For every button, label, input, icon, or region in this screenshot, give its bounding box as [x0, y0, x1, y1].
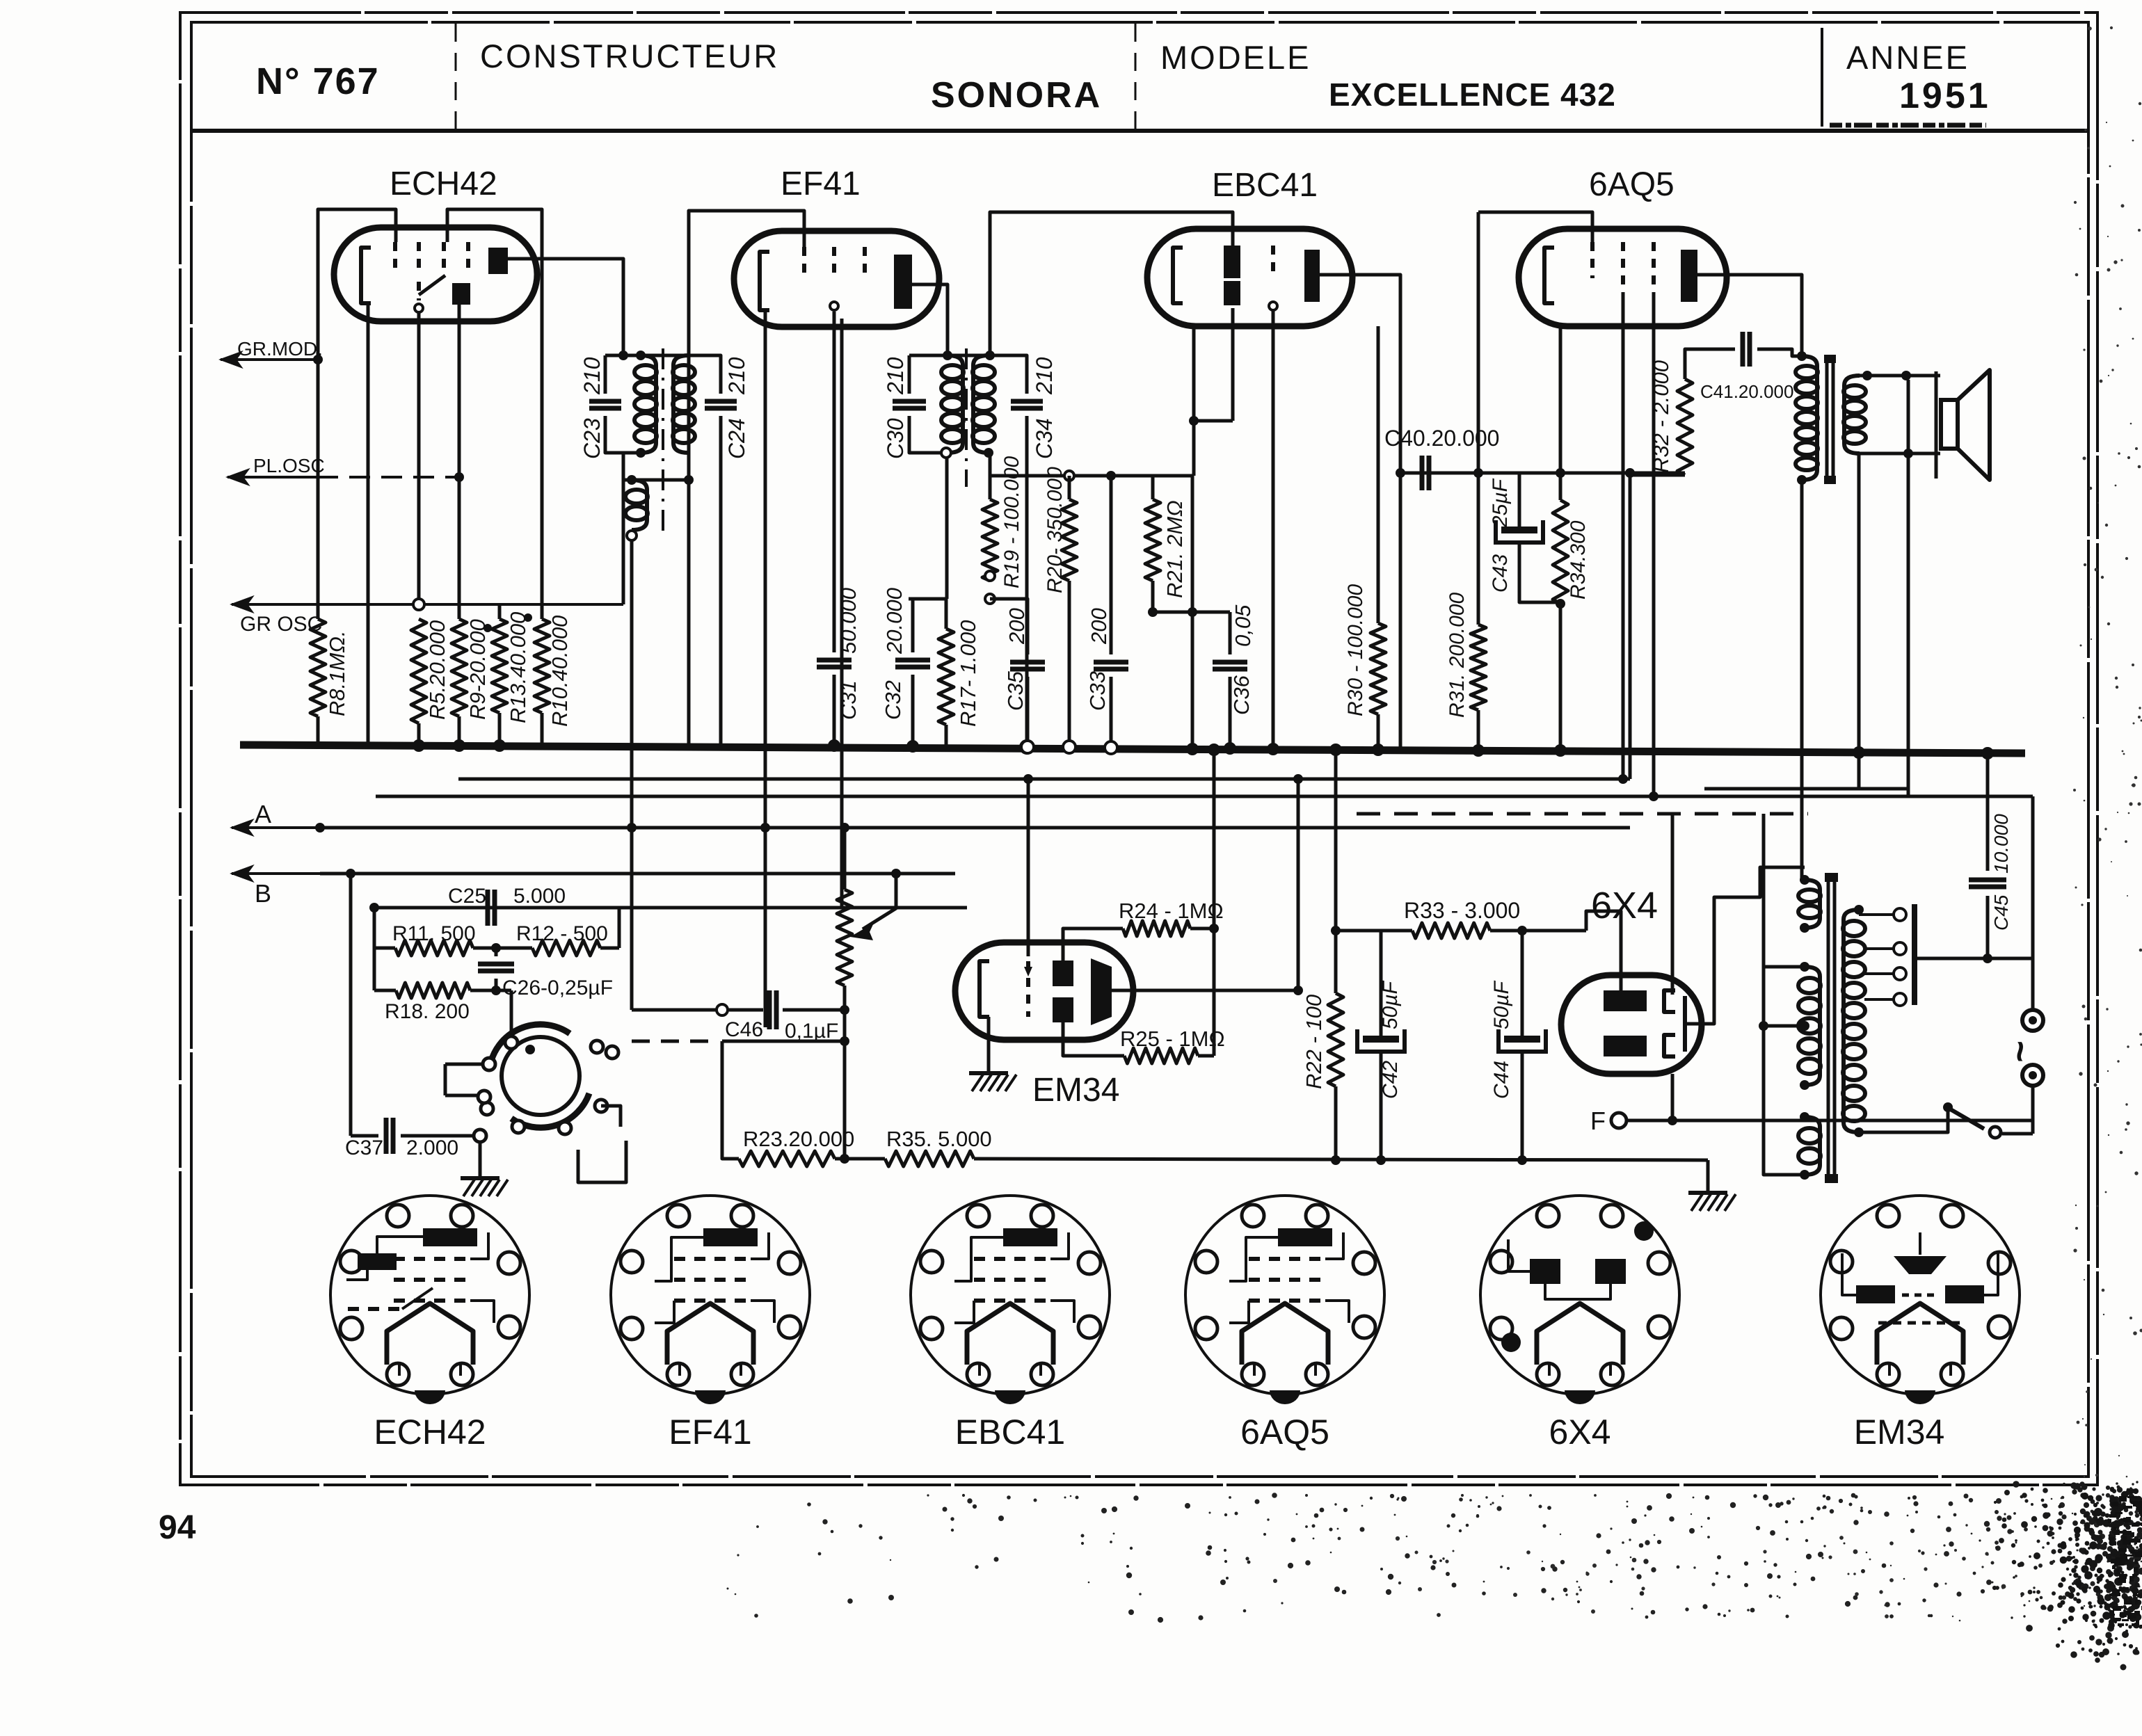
svg-text:210: 210: [724, 357, 749, 395]
capacitor C35 200: [990, 599, 1028, 654]
svg-text:R32 - 2.000: R32 - 2.000: [1649, 360, 1673, 473]
EM34 grid feed: [1027, 779, 1030, 956]
6X4 plates: [1604, 990, 1647, 1011]
svg-text:EBC41: EBC41: [1212, 167, 1318, 204]
T2 core: [965, 348, 968, 487]
resistor R5 20.000: [413, 599, 424, 610]
svg-text:R5.20.000: R5.20.000: [425, 620, 449, 720]
resistor R22 100: [1334, 750, 1338, 993]
terminal PL.OSC arrow: [227, 476, 317, 479]
gang frame wires: [578, 1141, 626, 1182]
resistor R25 1M: [1063, 1022, 1124, 1056]
6X4 plate feeds: [1586, 911, 1621, 990]
socket diagram 6X4: [1480, 1196, 1679, 1395]
IF transformer T1 top wire: [605, 354, 685, 357]
svg-text:6X4: 6X4: [1549, 1413, 1611, 1452]
svg-text:R12 - 500: R12 - 500: [516, 922, 608, 945]
svg-text:50.000: 50.000: [836, 588, 861, 654]
speaker wires: [1860, 374, 1940, 378]
EBC41 plate: [1304, 250, 1320, 302]
svg-text:C24: C24: [724, 418, 749, 459]
socket diagram EM34: [1821, 1196, 2020, 1395]
terminal GR OSC arrow / oscillator grid line: [232, 603, 623, 606]
right feed verticals: [1213, 750, 1216, 1056]
EM34 anodes: [1053, 961, 1073, 986]
output transformer core: [1825, 355, 1829, 484]
svg-text:F: F: [1590, 1107, 1606, 1135]
svg-text:R17- 1.000: R17- 1.000: [956, 620, 980, 727]
svg-text:2.000: 2.000: [406, 1136, 458, 1159]
socket diagram EF41: [611, 1196, 810, 1395]
svg-text:EF41: EF41: [781, 166, 861, 202]
EF41 pin wires: [764, 310, 767, 1027]
6AQ5 screen/grid pin wires: [1622, 292, 1625, 779]
svg-text:R9-20.000: R9-20.000: [465, 619, 490, 720]
6X4 cathode output: [1685, 867, 1805, 1024]
resistor R10 40.000: [534, 619, 550, 713]
smudge under 1951: [1830, 123, 1986, 128]
ECH42 cathode: [361, 248, 371, 303]
tap selector bar: [1912, 904, 1917, 1005]
capacitor C36 0,05: [1229, 612, 1232, 654]
capacitor C41 20.000: [1685, 349, 1735, 379]
ECH42 osc grid: [417, 282, 421, 300]
svg-text:SONORA: SONORA: [931, 75, 1102, 115]
svg-text:R11. 500: R11. 500: [392, 922, 476, 945]
AVC dashed line: [632, 1040, 716, 1043]
IF transformer T2 top wire: [909, 354, 990, 357]
svg-text:C23: C23: [580, 418, 605, 459]
svg-text:R31. 200.000: R31. 200.000: [1446, 593, 1469, 718]
svg-text:200: 200: [1087, 608, 1111, 645]
resistor R9 20.000: [451, 619, 467, 716]
T2 primary coil: [948, 355, 963, 453]
ECH42 hexode plate: [488, 248, 508, 274]
capacitor C37 2.000: [349, 874, 353, 1136]
heater line L1: [458, 778, 1630, 781]
EM34 target: [1091, 958, 1112, 1025]
svg-text:EF41: EF41: [669, 1413, 752, 1452]
right chassis ground: [1707, 1160, 1710, 1191]
tuning gang: [502, 1037, 580, 1115]
capacitor C43 25uF: [1518, 473, 1521, 515]
EF41 top hat: [689, 211, 804, 745]
T2 secondary coil: [973, 355, 989, 453]
svg-text:94: 94: [159, 1509, 196, 1546]
line B: [320, 872, 955, 876]
svg-text:~: ~: [1999, 1040, 2041, 1063]
capacitor C31 50.000: [833, 641, 836, 652]
6AQ5 cathode: [1544, 248, 1554, 303]
capacitor C25 5.000: [374, 908, 967, 948]
svg-text:C25: C25: [448, 885, 486, 908]
output transformer primary: [1802, 356, 1817, 480]
svg-text:EM34: EM34: [1032, 1072, 1119, 1109]
capacitor C40 20.000: [1400, 472, 1685, 475]
svg-text:R21. 2MΩ: R21. 2MΩ: [1162, 500, 1187, 598]
svg-text:B: B: [255, 879, 271, 908]
svg-text:50µF: 50µF: [1490, 980, 1513, 1029]
ECH42 cathode wire: [367, 303, 370, 746]
svg-text:R30 - 100.000: R30 - 100.000: [1344, 584, 1367, 716]
title block separator line: [191, 129, 2088, 133]
svg-text:50µF: 50µF: [1379, 980, 1402, 1029]
dashed heater segment: [1357, 812, 1808, 816]
resistor R13 40.000: [498, 604, 502, 619]
title divider 1: [455, 24, 457, 129]
svg-text:C32: C32: [881, 680, 905, 720]
tube ECH42 envelope: [334, 227, 537, 321]
capacitor C23: [604, 355, 607, 394]
svg-text:0,05: 0,05: [1231, 604, 1255, 647]
6AQ5 grids: [1590, 242, 1594, 278]
resistor R11 500: [374, 947, 395, 950]
terminal GR.MOD arrow: [221, 358, 318, 361]
capacitor C26 0,25uF: [495, 948, 498, 956]
svg-text:ECH42: ECH42: [374, 1413, 486, 1452]
svg-text:R8.1MΩ.: R8.1MΩ.: [325, 630, 349, 716]
EBC41 cathode: [1173, 248, 1183, 303]
resistor R18 200: [374, 989, 396, 992]
resistor R33 3.000: [1336, 929, 1412, 933]
primary taps: [1859, 913, 1894, 916]
border frame: [180, 13, 2097, 1485]
socket diagram EBC41: [911, 1196, 1110, 1395]
resistor R8 1M: [317, 360, 320, 619]
svg-text:ANNEE: ANNEE: [1846, 39, 1969, 76]
resistor R19 100.000: [982, 499, 998, 581]
svg-text:R18. 200: R18. 200: [385, 1000, 470, 1023]
selector output wire: [1915, 957, 1988, 961]
resistor R23 20.000: [722, 1041, 739, 1159]
svg-text:210: 210: [580, 357, 605, 395]
svg-text:R22 - 100: R22 - 100: [1302, 995, 1326, 1089]
EBC41 grid pin wire: [1272, 310, 1275, 749]
svg-text:R10.40.000: R10.40.000: [548, 616, 572, 727]
ECH42 plate wire to IF1: [508, 259, 623, 355]
tube 6X4 envelope: [1561, 975, 1702, 1074]
svg-text:20.000: 20.000: [882, 588, 906, 654]
capacitor C46 0,1uF: [632, 1008, 763, 1012]
EBC41 grid: [1271, 246, 1275, 278]
tube 6AQ5 envelope: [1519, 229, 1727, 326]
svg-text:0,1µF: 0,1µF: [785, 1020, 838, 1043]
svg-text:MODELE: MODELE: [1160, 39, 1311, 76]
svg-text:C46: C46: [725, 1018, 763, 1041]
6AQ5 plate wire: [1697, 275, 1802, 356]
heater line L2: [376, 795, 2033, 798]
power transformer primary: [1844, 910, 1859, 1132]
svg-text:C45: C45: [1990, 894, 2012, 931]
node B arrow: [232, 872, 320, 875]
svg-text:C36: C36: [1229, 675, 1254, 715]
scan noise: [1594, 1494, 1597, 1497]
resistor R20 350.000: [1062, 499, 1077, 581]
svg-text:C42: C42: [1379, 1061, 1402, 1099]
EM34 cathode ground: [987, 1017, 991, 1071]
title divider 3: [1821, 28, 1823, 127]
power transformer heater winding 1: [1805, 880, 1820, 928]
resistor R21 2M: [1151, 476, 1155, 499]
mains plug: [2031, 796, 2035, 1010]
EBC41 detector line vertical: [1191, 476, 1194, 749]
EF41 cathode: [760, 252, 769, 310]
node A arrow: [232, 826, 320, 829]
svg-text:R35. 5.000: R35. 5.000: [886, 1127, 992, 1151]
resistor R32 2.000: [1677, 379, 1693, 475]
svg-text:C35: C35: [1003, 670, 1028, 711]
svg-text:6X4: 6X4: [1591, 885, 1658, 926]
capacitor C30: [908, 355, 911, 394]
EM34 target wire: [1112, 989, 1298, 992]
EBC41 plate wire: [1320, 275, 1400, 750]
capacitor C33 200: [1110, 476, 1113, 654]
output transformer secondary: [1844, 376, 1860, 453]
svg-text:R25 - 1MΩ: R25 - 1MΩ: [1120, 1027, 1225, 1051]
transformer drop wires: [1800, 480, 1804, 880]
svg-text:210: 210: [1032, 357, 1057, 395]
capacitor C32 20.000: [909, 597, 946, 601]
tube EBC41 envelope: [1147, 229, 1352, 326]
tube EF41 envelope: [734, 231, 939, 327]
resistor R31 200.000: [1477, 212, 1480, 625]
ECH42 top hat wires: [318, 209, 396, 360]
svg-text:GR.MOD.: GR.MOD.: [237, 338, 323, 360]
EF41 plate wire to IF2: [912, 284, 948, 355]
svg-text:C41.20.000: C41.20.000: [1700, 381, 1793, 402]
transformer left feeds: [1704, 787, 1909, 791]
svg-text:5.000: 5.000: [513, 885, 566, 908]
EM34 grid: [1026, 961, 1030, 1017]
svg-text:R33 - 3.000: R33 - 3.000: [1404, 898, 1520, 923]
svg-text:C34: C34: [1032, 418, 1057, 459]
svg-text:1951: 1951: [1899, 76, 1991, 116]
svg-text:C26-0,25µF: C26-0,25µF: [502, 976, 613, 999]
tube EM34 envelope: [955, 942, 1133, 1040]
power transformer heater winding 2: [1805, 1117, 1820, 1175]
title divider 2: [1135, 24, 1137, 129]
svg-text:PL.OSC: PL.OSC: [253, 455, 325, 476]
socket diagram ECH42: [330, 1196, 529, 1395]
svg-text:R19 - 100.000: R19 - 100.000: [1000, 456, 1023, 588]
svg-text:R34.300: R34.300: [1567, 520, 1590, 600]
svg-text:EBC41: EBC41: [955, 1413, 1065, 1452]
R21 lower link: [1153, 611, 1230, 614]
volume potentiometer: [843, 828, 847, 890]
mains switch: [2002, 1132, 2033, 1136]
svg-text:N° 767: N° 767: [256, 61, 380, 102]
capacitor C42 50uF: [1380, 931, 1383, 1024]
resistor R17 1.000: [945, 599, 948, 629]
chassis ground under gang: [479, 1141, 482, 1176]
main bus line: [240, 745, 2025, 753]
T1 secondary coil: [673, 355, 689, 453]
resistor R34 300: [1559, 326, 1562, 500]
EF41 plate: [894, 255, 912, 309]
svg-text:C43: C43: [1489, 554, 1512, 593]
bus junction dots left: [413, 739, 425, 752]
socket diagram 6AQ5: [1185, 1196, 1384, 1395]
svg-text:210: 210: [883, 357, 908, 395]
EBC41 top hat: [990, 212, 1233, 355]
detector node line: [989, 453, 992, 476]
capacitor C34: [990, 355, 1027, 394]
T1 primary coil: [641, 355, 656, 453]
svg-text:C31: C31: [836, 680, 861, 720]
capacitor C45 10.000: [1986, 753, 1990, 871]
resistor R30 100.000: [1377, 326, 1380, 623]
T1 core: [662, 348, 664, 538]
svg-text:R24 - 1MΩ: R24 - 1MΩ: [1119, 899, 1224, 923]
EF41 grids: [802, 247, 806, 280]
lower return line dots: [1331, 1155, 1341, 1165]
svg-text:25µF: 25µF: [1489, 478, 1512, 528]
6AQ5 plate: [1681, 250, 1697, 302]
svg-text:6AQ5: 6AQ5: [1589, 166, 1675, 203]
svg-text:ECH42: ECH42: [390, 166, 497, 202]
svg-text:CONSTRUCTEUR: CONSTRUCTEUR: [480, 38, 779, 74]
pot bottom vertical: [843, 1041, 847, 1159]
capacitor C24: [676, 355, 721, 394]
6X4 cathodes: [1664, 990, 1675, 1012]
resistor R24 1M: [1063, 929, 1123, 961]
svg-text:10.000: 10.000: [1990, 814, 2012, 874]
6AQ5 top hat: [1478, 212, 1592, 242]
capacitor C44 50uF: [1521, 931, 1524, 1024]
ECH42 grids: [393, 242, 397, 275]
svg-text:C30: C30: [883, 418, 908, 459]
ECH42 pin wires: [417, 312, 421, 604]
svg-text:R23.20.000: R23.20.000: [743, 1127, 854, 1151]
resistor R12 500: [473, 947, 532, 950]
speaker: [1935, 371, 1938, 479]
AVC line A: [320, 826, 1630, 830]
svg-text:R13.40.000: R13.40.000: [506, 612, 530, 723]
svg-text:EM34: EM34: [1854, 1413, 1945, 1452]
power transformer HT winding: [1805, 967, 1820, 1085]
svg-text:C44: C44: [1490, 1061, 1513, 1099]
T2 primary bottom feed to C32/R17: [945, 458, 949, 599]
svg-text:A: A: [255, 800, 271, 828]
svg-text:GR OSC: GR OSC: [240, 613, 322, 636]
svg-text:C40.20.000: C40.20.000: [1384, 426, 1499, 451]
EM34 cathode: [980, 961, 989, 1017]
svg-text:R20- 350.000: R20- 350.000: [1044, 467, 1066, 593]
EBC41 cathode pin wire: [1192, 326, 1196, 476]
svg-text:EXCELLENCE 432: EXCELLENCE 432: [1329, 77, 1616, 113]
svg-text:C33: C33: [1085, 671, 1110, 711]
svg-text:200: 200: [1005, 608, 1029, 645]
oscillator coil: [622, 453, 625, 604]
power transformer core: [1827, 873, 1830, 1182]
svg-text:C37: C37: [345, 1136, 383, 1159]
ECH42 triode plate: [452, 283, 470, 305]
EBC41 diode plates: [1224, 246, 1240, 278]
svg-text:6AQ5: 6AQ5: [1240, 1413, 1329, 1452]
resistor R35 5.000: [885, 1151, 974, 1166]
